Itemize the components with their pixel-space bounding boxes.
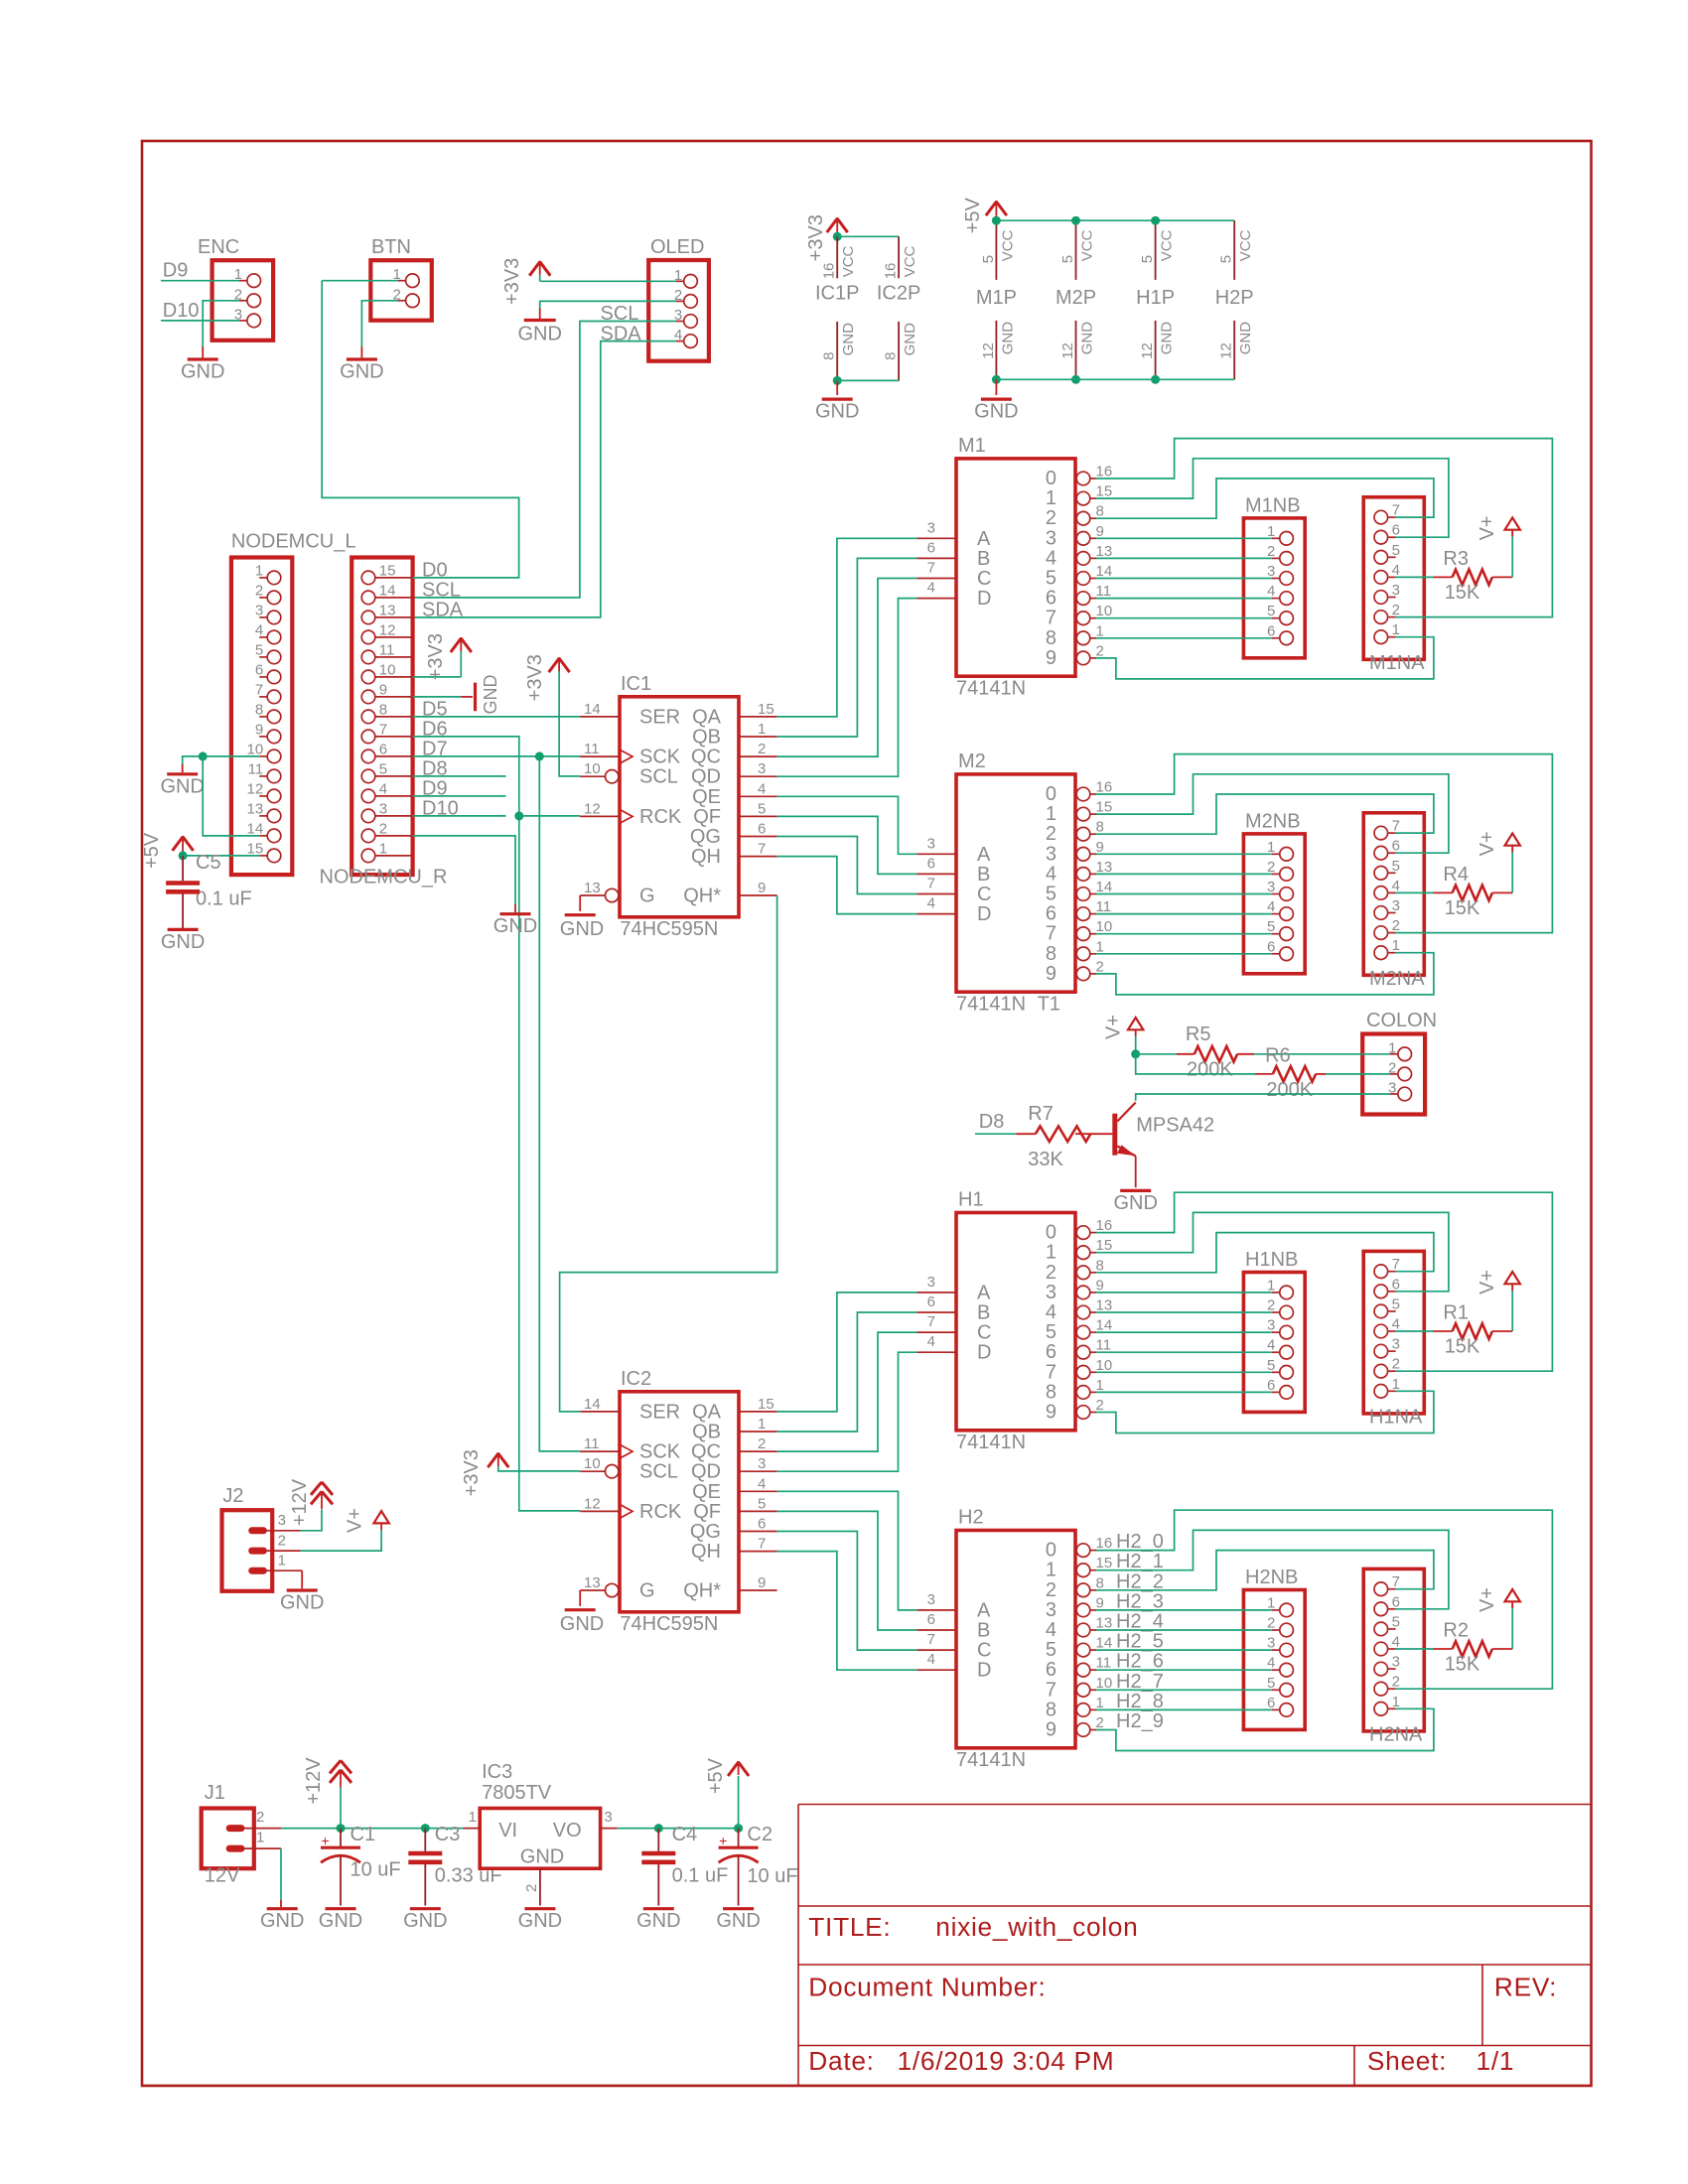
- svg-text:10 uF: 10 uF: [747, 1865, 797, 1887]
- svg-text:QD: QD: [691, 1461, 721, 1483]
- svg-text:15: 15: [1096, 1237, 1113, 1254]
- svg-text:VCC: VCC: [840, 245, 857, 277]
- svg-text:12: 12: [1059, 342, 1076, 359]
- svg-text:16: 16: [1096, 464, 1113, 480]
- svg-text:2: 2: [278, 1532, 286, 1549]
- svg-text:+3V3: +3V3: [524, 654, 546, 701]
- svg-text:C5: C5: [196, 852, 221, 874]
- svg-text:3: 3: [1267, 1317, 1275, 1334]
- svg-text:8: 8: [883, 352, 900, 360]
- svg-text:11: 11: [1096, 583, 1112, 600]
- svg-text:H2NB: H2NB: [1245, 1567, 1298, 1588]
- svg-text:B: B: [977, 1620, 990, 1642]
- svg-text:OLED: OLED: [650, 236, 704, 258]
- svg-text:15: 15: [1096, 1555, 1113, 1571]
- svg-text:4: 4: [1267, 583, 1275, 600]
- svg-text:15: 15: [758, 1396, 774, 1413]
- svg-text:1: 1: [1046, 1560, 1056, 1581]
- svg-text:H1P: H1P: [1136, 287, 1175, 309]
- svg-text:11: 11: [1096, 1655, 1112, 1672]
- svg-text:10: 10: [1096, 1357, 1113, 1374]
- svg-text:14: 14: [584, 1396, 601, 1413]
- svg-text:5: 5: [1392, 542, 1400, 559]
- svg-text:10: 10: [247, 741, 264, 757]
- svg-text:2: 2: [1267, 859, 1275, 876]
- svg-text:9: 9: [1096, 523, 1104, 540]
- svg-text:2: 2: [1267, 543, 1275, 560]
- svg-text:REV:: REV:: [1494, 1972, 1557, 2001]
- svg-text:QB: QB: [692, 1422, 721, 1443]
- svg-text:12V: 12V: [205, 1864, 240, 1886]
- svg-text:1: 1: [758, 721, 766, 738]
- svg-text:200K: 200K: [1187, 1059, 1233, 1081]
- svg-text:9: 9: [1046, 963, 1056, 985]
- svg-text:3: 3: [1392, 1336, 1400, 1353]
- svg-text:A: A: [977, 1282, 991, 1303]
- svg-text:3: 3: [1046, 843, 1056, 865]
- svg-text:10: 10: [379, 661, 396, 678]
- svg-text:IC2: IC2: [621, 1368, 651, 1390]
- svg-text:13: 13: [584, 1574, 601, 1591]
- svg-text:+5V: +5V: [962, 197, 984, 233]
- svg-text:6: 6: [1392, 838, 1400, 855]
- svg-text:+: +: [322, 1833, 330, 1848]
- svg-text:QG: QG: [690, 1521, 721, 1543]
- svg-text:A: A: [977, 528, 991, 550]
- svg-text:3: 3: [927, 1274, 935, 1291]
- svg-text:7: 7: [758, 841, 766, 858]
- svg-text:5: 5: [1139, 255, 1156, 263]
- svg-text:5: 5: [1267, 1357, 1275, 1374]
- svg-text:4: 4: [1267, 1655, 1275, 1672]
- svg-text:10: 10: [1096, 918, 1113, 935]
- svg-text:7: 7: [379, 721, 387, 738]
- svg-text:V+: V+: [1477, 515, 1498, 540]
- svg-text:4: 4: [927, 895, 935, 912]
- svg-text:D: D: [977, 588, 991, 610]
- svg-text:14: 14: [584, 701, 601, 718]
- svg-text:4: 4: [1392, 878, 1400, 894]
- svg-text:13: 13: [1096, 859, 1113, 876]
- svg-text:4: 4: [1046, 863, 1056, 885]
- svg-text:6: 6: [1267, 938, 1275, 955]
- svg-text:M1P: M1P: [976, 287, 1017, 309]
- svg-text:74HC595N: 74HC595N: [620, 918, 718, 940]
- svg-text:IC1P: IC1P: [815, 282, 859, 304]
- svg-text:GND: GND: [840, 323, 857, 356]
- svg-text:2: 2: [1267, 1615, 1275, 1632]
- svg-text:3: 3: [1392, 897, 1400, 914]
- svg-text:15: 15: [758, 701, 774, 718]
- svg-text:J2: J2: [222, 1485, 243, 1507]
- svg-text:R5: R5: [1186, 1024, 1211, 1045]
- svg-text:3: 3: [927, 1591, 935, 1608]
- svg-text:1: 1: [1096, 1377, 1104, 1394]
- svg-text:74HC595N: 74HC595N: [620, 1613, 718, 1635]
- svg-text:nixie_with_colon: nixie_with_colon: [935, 1912, 1138, 1942]
- svg-text:8: 8: [1046, 627, 1056, 649]
- svg-text:1: 1: [1046, 803, 1056, 825]
- svg-text:7: 7: [1046, 1361, 1056, 1383]
- svg-text:IC3: IC3: [482, 1761, 512, 1783]
- svg-text:5: 5: [1392, 1296, 1400, 1312]
- svg-text:COLON: COLON: [1366, 1010, 1437, 1031]
- svg-text:74141N: 74141N: [956, 994, 1026, 1016]
- svg-text:IC2P: IC2P: [877, 282, 920, 304]
- svg-text:BTN: BTN: [371, 236, 411, 258]
- svg-text:QE: QE: [692, 786, 721, 808]
- svg-text:G: G: [639, 886, 655, 907]
- svg-text:QF: QF: [693, 806, 721, 828]
- svg-text:14: 14: [1096, 1317, 1113, 1334]
- svg-text:9: 9: [1096, 839, 1104, 856]
- svg-text:9: 9: [255, 721, 263, 738]
- svg-text:3: 3: [758, 760, 766, 777]
- svg-text:2: 2: [1392, 917, 1400, 934]
- svg-text:14: 14: [1096, 879, 1113, 895]
- svg-text:3: 3: [758, 1455, 766, 1472]
- svg-text:11: 11: [248, 760, 264, 777]
- svg-text:9: 9: [1046, 1719, 1056, 1741]
- svg-text:5: 5: [1392, 1613, 1400, 1630]
- svg-text:V+: V+: [1477, 831, 1498, 856]
- svg-text:13: 13: [247, 800, 264, 817]
- svg-text:SCL: SCL: [639, 766, 678, 788]
- svg-text:R7: R7: [1028, 1103, 1054, 1125]
- svg-text:6: 6: [758, 1516, 766, 1533]
- svg-text:GND: GND: [560, 1613, 604, 1635]
- svg-text:+5V: +5V: [705, 1757, 727, 1794]
- svg-text:D: D: [977, 1660, 991, 1682]
- svg-text:0: 0: [1046, 783, 1056, 805]
- svg-text:R2: R2: [1443, 1620, 1469, 1642]
- svg-text:NODEMCU_R: NODEMCU_R: [320, 867, 448, 888]
- svg-text:11: 11: [584, 1435, 600, 1452]
- svg-text:13: 13: [584, 880, 601, 896]
- svg-text:4: 4: [1392, 1316, 1400, 1333]
- svg-text:2: 2: [1096, 1397, 1104, 1414]
- svg-text:QB: QB: [692, 727, 721, 749]
- svg-text:11: 11: [584, 741, 600, 757]
- svg-text:D10: D10: [163, 300, 200, 322]
- svg-text:D: D: [977, 1342, 991, 1364]
- svg-text:2: 2: [379, 820, 387, 837]
- svg-text:15: 15: [379, 562, 396, 579]
- svg-text:74141N: 74141N: [956, 678, 1026, 700]
- svg-text:8: 8: [821, 352, 838, 360]
- svg-text:0.1 uF: 0.1 uF: [672, 1864, 729, 1886]
- svg-text:VCC: VCC: [1159, 229, 1176, 261]
- svg-text:+3V3: +3V3: [425, 633, 447, 680]
- svg-text:GND: GND: [636, 1910, 680, 1932]
- svg-text:C: C: [977, 1322, 991, 1344]
- svg-text:2: 2: [758, 741, 766, 757]
- svg-text:12: 12: [379, 621, 396, 638]
- svg-text:1: 1: [758, 1416, 766, 1433]
- svg-text:13: 13: [1096, 543, 1113, 560]
- svg-text:GND: GND: [999, 322, 1016, 355]
- svg-text:4: 4: [1392, 562, 1400, 579]
- svg-text:1: 1: [1267, 523, 1275, 540]
- svg-text:VCC: VCC: [1237, 229, 1254, 261]
- svg-text:MPSA42: MPSA42: [1136, 1115, 1214, 1137]
- svg-text:M1NA: M1NA: [1369, 652, 1425, 674]
- svg-text:H2_9: H2_9: [1116, 1710, 1164, 1732]
- svg-text:2: 2: [1267, 1297, 1275, 1314]
- svg-text:3: 3: [1046, 1282, 1056, 1303]
- svg-text:16: 16: [1096, 1217, 1113, 1234]
- svg-text:5: 5: [1218, 255, 1235, 263]
- svg-text:GND: GND: [518, 1910, 562, 1932]
- svg-text:ENC: ENC: [198, 236, 239, 258]
- svg-text:D: D: [977, 903, 991, 925]
- svg-text:0: 0: [1046, 1540, 1056, 1562]
- svg-text:H2: H2: [958, 1507, 984, 1529]
- svg-text:16: 16: [1096, 1535, 1113, 1552]
- svg-text:+: +: [719, 1833, 727, 1848]
- svg-text:6: 6: [255, 661, 263, 678]
- svg-text:2: 2: [1096, 1714, 1104, 1731]
- svg-text:QG: QG: [690, 826, 721, 848]
- svg-text:2: 2: [1096, 642, 1104, 659]
- svg-text:5: 5: [379, 760, 387, 777]
- svg-text:8: 8: [1046, 1699, 1056, 1720]
- svg-text:10: 10: [1096, 603, 1113, 619]
- svg-text:8: 8: [1046, 1381, 1056, 1403]
- svg-text:VO: VO: [553, 1820, 582, 1842]
- svg-text:IC1: IC1: [621, 673, 651, 695]
- svg-text:R4: R4: [1443, 864, 1469, 886]
- svg-text:2: 2: [1392, 1356, 1400, 1373]
- svg-text:15: 15: [1096, 799, 1113, 816]
- svg-text:4: 4: [379, 780, 387, 797]
- svg-text:7: 7: [1046, 923, 1056, 945]
- svg-text:QC: QC: [691, 1441, 721, 1463]
- svg-text:QH: QH: [691, 846, 721, 868]
- svg-text:10: 10: [1096, 1675, 1113, 1692]
- svg-text:5: 5: [255, 641, 263, 658]
- svg-text:11: 11: [1096, 1337, 1112, 1354]
- svg-text:M2NB: M2NB: [1245, 810, 1301, 832]
- svg-text:5: 5: [1267, 603, 1275, 619]
- svg-text:3: 3: [1267, 1635, 1275, 1652]
- svg-text:+12V: +12V: [289, 1478, 311, 1526]
- svg-text:6: 6: [1046, 903, 1056, 925]
- svg-text:1: 1: [1392, 1376, 1400, 1393]
- svg-text:12: 12: [584, 1495, 601, 1512]
- svg-text:R3: R3: [1443, 548, 1469, 570]
- svg-text:7: 7: [758, 1536, 766, 1553]
- svg-text:3: 3: [1046, 527, 1056, 549]
- svg-text:3: 3: [379, 800, 387, 817]
- svg-text:C: C: [977, 1640, 991, 1662]
- svg-text:QE: QE: [692, 1481, 721, 1503]
- svg-text:QD: QD: [691, 766, 721, 788]
- svg-text:6: 6: [1046, 1659, 1056, 1681]
- svg-text:3: 3: [255, 602, 263, 618]
- svg-text:4: 4: [927, 1651, 935, 1668]
- svg-text:1: 1: [1392, 937, 1400, 954]
- svg-text:6: 6: [927, 1611, 935, 1628]
- svg-text:5: 5: [1059, 255, 1076, 263]
- svg-text:10: 10: [584, 1455, 601, 1472]
- svg-text:6: 6: [1392, 1276, 1400, 1293]
- svg-text:9: 9: [379, 681, 387, 698]
- svg-text:1: 1: [1267, 1277, 1275, 1294]
- svg-text:2: 2: [255, 582, 263, 599]
- svg-text:R6: R6: [1265, 1045, 1291, 1067]
- svg-text:3: 3: [1267, 563, 1275, 580]
- svg-text:11: 11: [1096, 898, 1112, 915]
- svg-text:33K: 33K: [1028, 1149, 1063, 1170]
- svg-text:0: 0: [1046, 1222, 1056, 1244]
- svg-text:8: 8: [1096, 503, 1104, 520]
- svg-text:16: 16: [1096, 779, 1113, 796]
- svg-text:3: 3: [1046, 1599, 1056, 1621]
- svg-text:1: 1: [1096, 1695, 1104, 1711]
- svg-text:9: 9: [1096, 1594, 1104, 1611]
- svg-text:GND: GND: [1159, 322, 1176, 355]
- svg-text:SCK: SCK: [639, 747, 681, 768]
- svg-text:G: G: [639, 1580, 655, 1602]
- svg-text:12: 12: [584, 800, 601, 817]
- svg-text:GND: GND: [815, 401, 859, 423]
- svg-text:2: 2: [1046, 507, 1056, 529]
- svg-text:6: 6: [1392, 1593, 1400, 1610]
- svg-text:RCK: RCK: [639, 1501, 682, 1523]
- svg-text:SDA: SDA: [422, 600, 464, 621]
- svg-text:3: 3: [927, 835, 935, 852]
- svg-text:TITLE:: TITLE:: [808, 1912, 891, 1942]
- svg-text:+12V: +12V: [303, 1757, 325, 1805]
- svg-text:B: B: [977, 1302, 990, 1324]
- svg-text:Sheet:: Sheet:: [1367, 2046, 1447, 2076]
- svg-text:7: 7: [1046, 1679, 1056, 1701]
- svg-text:C4: C4: [672, 1824, 698, 1845]
- svg-text:200K: 200K: [1266, 1079, 1313, 1101]
- svg-text:7: 7: [927, 1631, 935, 1648]
- svg-text:GND: GND: [974, 401, 1018, 423]
- svg-text:B: B: [977, 864, 990, 886]
- svg-text:14: 14: [1096, 1635, 1113, 1652]
- svg-text:74141N: 74141N: [956, 1432, 1026, 1453]
- svg-text:SER: SER: [639, 706, 680, 728]
- svg-text:VCC: VCC: [902, 245, 918, 277]
- svg-text:A: A: [977, 844, 991, 866]
- svg-text:7: 7: [1392, 1256, 1400, 1273]
- svg-text:QH*: QH*: [683, 1580, 721, 1602]
- svg-text:1: 1: [1392, 621, 1400, 638]
- svg-text:1: 1: [1392, 1694, 1400, 1710]
- svg-text:2: 2: [523, 1884, 540, 1892]
- svg-text:QA: QA: [692, 706, 722, 728]
- svg-text:Date:: Date:: [808, 2046, 874, 2076]
- svg-text:GND: GND: [1079, 322, 1096, 355]
- svg-text:+3V3: +3V3: [805, 214, 827, 261]
- svg-text:74141N: 74141N: [956, 1749, 1026, 1771]
- svg-text:4: 4: [1046, 1619, 1056, 1641]
- svg-text:7: 7: [1392, 502, 1400, 519]
- svg-text:15: 15: [247, 840, 264, 857]
- svg-text:13: 13: [1096, 1297, 1113, 1314]
- svg-text:8: 8: [255, 701, 263, 718]
- svg-text:8: 8: [1096, 1574, 1104, 1591]
- svg-text:5: 5: [1046, 1321, 1056, 1343]
- svg-text:VCC: VCC: [1079, 229, 1096, 261]
- svg-text:V+: V+: [1103, 1015, 1125, 1039]
- svg-text:9: 9: [758, 880, 766, 896]
- svg-text:8: 8: [379, 701, 387, 718]
- svg-text:6: 6: [379, 741, 387, 757]
- svg-text:1: 1: [1046, 487, 1056, 509]
- svg-text:GND: GND: [181, 361, 224, 383]
- svg-text:GND: GND: [161, 931, 205, 953]
- svg-text:C: C: [977, 884, 991, 905]
- svg-text:M2: M2: [958, 751, 986, 772]
- svg-text:7: 7: [1046, 608, 1056, 629]
- svg-text:GND: GND: [517, 323, 561, 344]
- svg-text:15K: 15K: [1445, 1654, 1480, 1676]
- svg-text:1: 1: [278, 1552, 286, 1569]
- svg-text:A: A: [977, 1599, 991, 1621]
- svg-text:R1: R1: [1443, 1302, 1469, 1324]
- svg-text:1: 1: [469, 1809, 477, 1826]
- svg-text:QH*: QH*: [683, 886, 721, 907]
- svg-text:5: 5: [1267, 1675, 1275, 1692]
- svg-text:6: 6: [758, 821, 766, 838]
- svg-text:2: 2: [1392, 602, 1400, 618]
- svg-text:GND: GND: [716, 1910, 760, 1932]
- svg-text:7: 7: [927, 560, 935, 577]
- svg-text:GND: GND: [560, 918, 604, 940]
- svg-text:7: 7: [927, 876, 935, 892]
- svg-text:4: 4: [758, 780, 766, 797]
- svg-text:SCL: SCL: [639, 1461, 678, 1483]
- svg-text:15K: 15K: [1445, 897, 1480, 919]
- svg-text:T1: T1: [1038, 994, 1060, 1016]
- svg-text:6: 6: [1046, 588, 1056, 610]
- svg-text:QF: QF: [693, 1501, 721, 1523]
- svg-text:V+: V+: [1477, 1587, 1498, 1612]
- svg-text:5: 5: [758, 1495, 766, 1512]
- svg-text:9: 9: [1046, 1402, 1056, 1424]
- svg-text:16: 16: [821, 263, 838, 280]
- svg-text:13: 13: [1096, 1615, 1113, 1632]
- svg-text:12: 12: [247, 780, 264, 797]
- svg-text:SCK: SCK: [639, 1441, 681, 1463]
- svg-text:3: 3: [1392, 582, 1400, 599]
- svg-text:V+: V+: [345, 1508, 366, 1533]
- svg-text:C2: C2: [747, 1824, 773, 1845]
- svg-text:GND: GND: [340, 361, 383, 383]
- svg-text:13: 13: [379, 602, 396, 618]
- svg-text:1/6/2019 3:04 PM: 1/6/2019 3:04 PM: [898, 2046, 1115, 2076]
- svg-text:C3: C3: [435, 1824, 461, 1845]
- svg-text:J1: J1: [205, 1782, 225, 1804]
- svg-text:1: 1: [256, 1829, 264, 1845]
- svg-text:6: 6: [1267, 1377, 1275, 1394]
- svg-text:3: 3: [927, 519, 935, 536]
- svg-text:VCC: VCC: [999, 229, 1016, 261]
- svg-text:15: 15: [1096, 483, 1113, 500]
- svg-text:Document Number:: Document Number:: [808, 1972, 1046, 2001]
- svg-text:H1NA: H1NA: [1369, 1407, 1423, 1429]
- svg-text:D9: D9: [163, 260, 189, 282]
- svg-text:6: 6: [1267, 622, 1275, 639]
- svg-text:5: 5: [758, 800, 766, 817]
- svg-text:4: 4: [1046, 547, 1056, 569]
- svg-text:10 uF: 10 uF: [351, 1859, 401, 1881]
